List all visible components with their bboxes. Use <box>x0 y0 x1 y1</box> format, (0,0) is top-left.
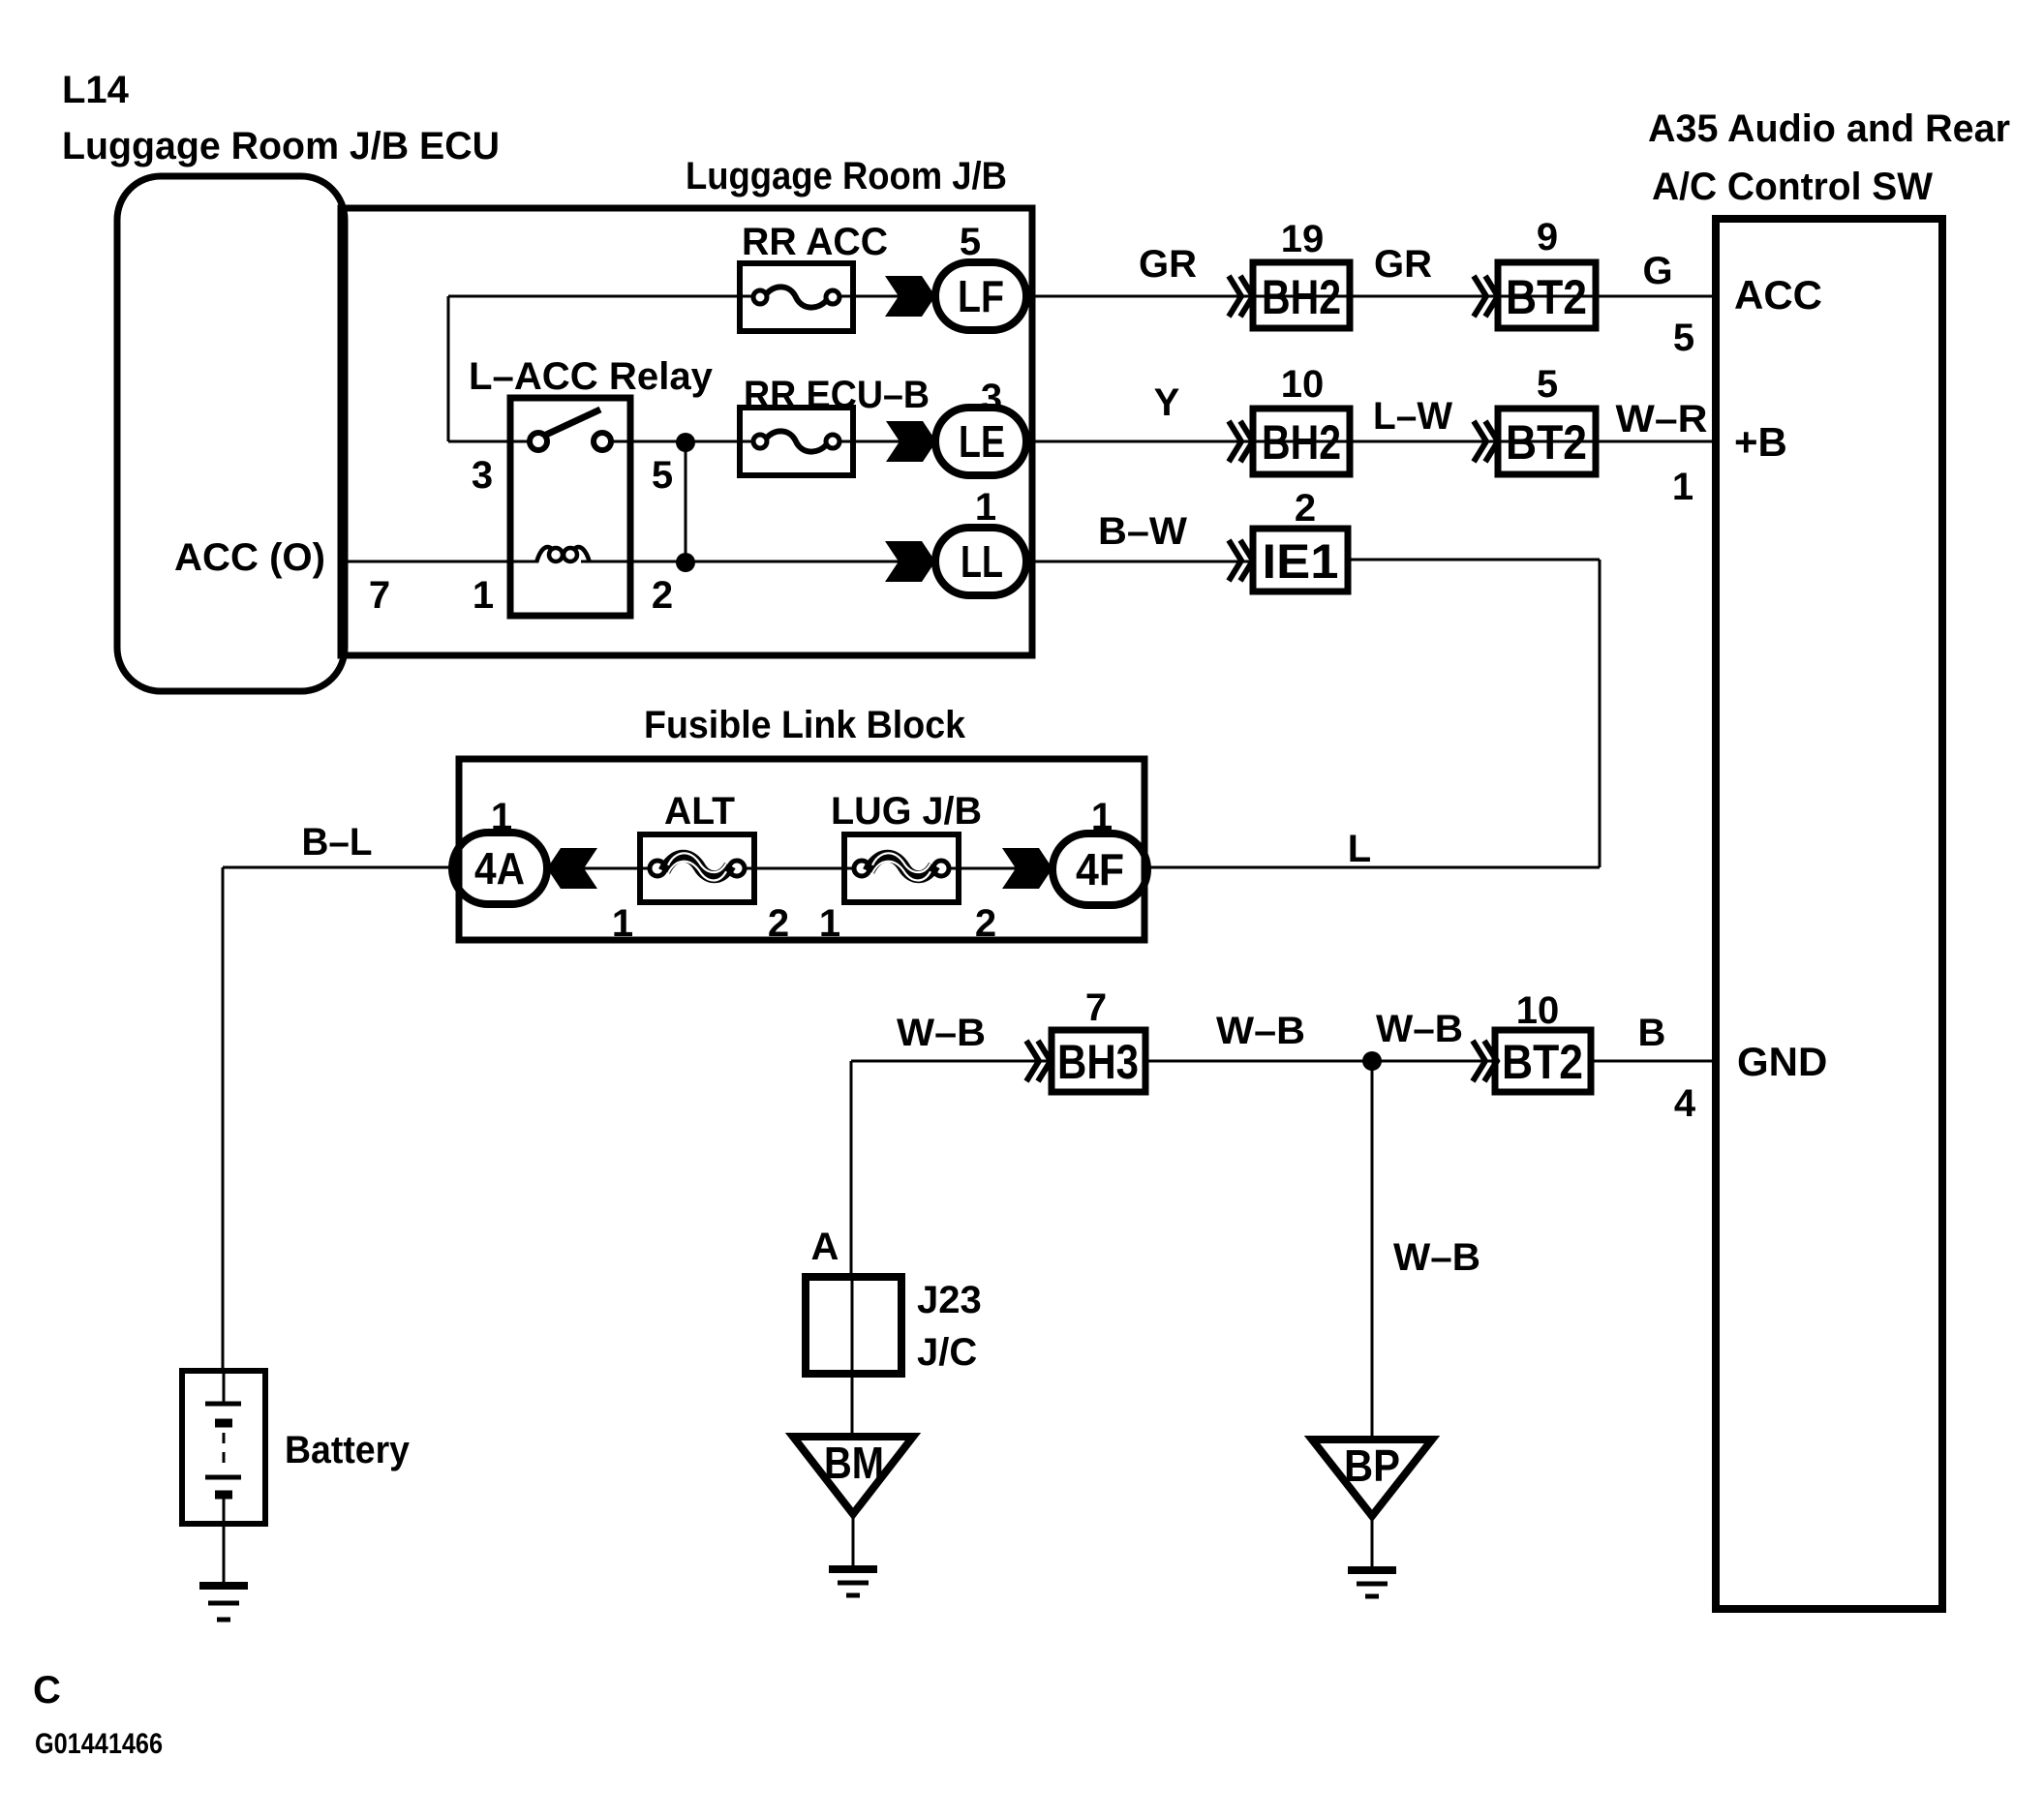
wire IE1 to corner <box>1348 559 1600 561</box>
svg-text:B: B <box>1638 1012 1666 1054</box>
svg-text:Luggage Room J/B ECU: Luggage Room J/B ECU <box>62 125 500 167</box>
svg-text:A: A <box>811 1226 839 1268</box>
wire corner riser down to L wire <box>1599 560 1602 867</box>
svg-text:Battery: Battery <box>285 1429 411 1471</box>
svg-text:L: L <box>1348 828 1371 870</box>
ground BP <box>1348 1566 1396 1574</box>
svg-text:BT2: BT2 <box>1506 415 1587 470</box>
svg-text:+B: +B <box>1734 419 1787 465</box>
relay contact left (pin 3) <box>530 433 547 450</box>
svg-text:LE: LE <box>959 416 1005 467</box>
svg-text:BH2: BH2 <box>1262 415 1341 470</box>
svg-text:5: 5 <box>1673 317 1694 359</box>
fuse RR ACC <box>740 263 853 331</box>
svg-text:7: 7 <box>369 574 390 617</box>
svg-text:7: 7 <box>1085 986 1107 1029</box>
wire riser row1 to relay pin 3 <box>447 296 450 441</box>
svg-text:19: 19 <box>1281 218 1325 260</box>
svg-text:2: 2 <box>652 574 673 617</box>
svg-text:9: 9 <box>1537 216 1558 258</box>
connector BH3 <box>1052 1030 1145 1092</box>
fuse RR ECU-B <box>740 408 853 475</box>
connector BT2 row2 <box>1498 409 1596 474</box>
wire BM to ground <box>852 1514 855 1569</box>
cavity LL <box>935 528 1026 595</box>
relay L-ACC Relay box <box>510 398 630 616</box>
wire W-B corner to BH3 <box>851 1060 1052 1063</box>
connector arrows into BT2 row1 <box>1474 276 1486 317</box>
svg-text:BT2: BT2 <box>1506 270 1587 324</box>
cavity 4F <box>1053 834 1147 905</box>
svg-text:GND: GND <box>1737 1039 1827 1084</box>
svg-text:W–R: W–R <box>1616 398 1708 440</box>
relay coil <box>536 547 552 562</box>
wire B-L from corner to 4A <box>223 866 454 869</box>
svg-text:Y: Y <box>1154 381 1180 424</box>
svg-text:LL: LL <box>961 536 1003 587</box>
connector BH2 row1 <box>1253 262 1350 328</box>
cavity 4A <box>452 833 547 904</box>
battery <box>182 1371 265 1524</box>
svg-text:1: 1 <box>612 902 633 945</box>
svg-text:B–W: B–W <box>1098 510 1187 553</box>
wire row1 from riser to RR ACC fuse <box>448 295 754 298</box>
wire BT2 to A35 GND <box>1591 1060 1716 1063</box>
svg-text:4F: 4F <box>1076 844 1124 894</box>
svg-text:IE1: IE1 <box>1263 534 1339 589</box>
wire relay pin5 to junction row2 <box>611 440 754 443</box>
arrow out of 4A <box>547 848 597 889</box>
wire 4A to ALT fuse <box>547 867 651 870</box>
svg-text:2: 2 <box>1295 487 1316 530</box>
svg-text:LUG J/B: LUG J/B <box>831 790 982 833</box>
fusible link block box <box>459 759 1144 940</box>
svg-text:4: 4 <box>1674 1082 1696 1125</box>
svg-text:L14: L14 <box>62 69 130 111</box>
wire L from 4F to riser <box>1147 866 1600 869</box>
svg-text:B–L: B–L <box>302 821 373 864</box>
svg-text:1: 1 <box>1672 466 1693 508</box>
svg-text:ACC (O): ACC (O) <box>174 536 325 579</box>
svg-text:G01441466: G01441466 <box>35 1728 163 1760</box>
connector L14 Luggage Room J/B ECU body <box>117 176 345 691</box>
svg-text:A/C Control SW: A/C Control SW <box>1652 166 1933 208</box>
wire riser corner down to J23 <box>850 1061 853 1277</box>
svg-text:W–B: W–B <box>1216 1010 1305 1052</box>
svg-text:GR: GR <box>1139 243 1197 286</box>
arrow into LE <box>886 421 936 462</box>
fusible link ALT <box>640 834 754 902</box>
wire LE to A35 +B <box>1026 440 1716 443</box>
svg-text:5: 5 <box>1537 363 1558 406</box>
fusible link LUG J/B <box>844 834 959 902</box>
wire B-L riser down to battery <box>222 867 225 1371</box>
wire BH3 to junction <box>1145 1060 1495 1063</box>
svg-text:ALT: ALT <box>664 790 735 833</box>
svg-text:LF: LF <box>958 271 1004 321</box>
svg-text:3: 3 <box>981 377 1002 419</box>
wire LUG J/B fuse to 4F <box>947 867 1053 870</box>
connector arrows into BT2 row4 <box>1473 1041 1485 1081</box>
arrow into 4F <box>1002 848 1053 889</box>
junction connector J23 J/C <box>806 1277 901 1374</box>
connector A35 Audio and Rear A/C Control SW body <box>1716 219 1942 1609</box>
connector arrows into BH2 row2 <box>1229 421 1241 462</box>
cavity LE <box>935 408 1026 475</box>
svg-text:W–B: W–B <box>1393 1236 1480 1279</box>
wire junction to LL <box>686 561 935 563</box>
wire battery to ground <box>223 1524 226 1586</box>
svg-text:W–B: W–B <box>1376 1008 1463 1050</box>
svg-text:4A: 4A <box>474 843 525 894</box>
svg-text:BH3: BH3 <box>1057 1035 1139 1089</box>
svg-text:10: 10 <box>1281 363 1325 406</box>
svg-text:BM: BM <box>824 1438 884 1488</box>
ground connector BM <box>793 1437 913 1514</box>
ground connector BP <box>1312 1440 1432 1516</box>
svg-text:5: 5 <box>960 221 981 263</box>
wire LF to A35 ACC <box>1026 295 1716 298</box>
connector BH2 row2 <box>1253 409 1350 474</box>
svg-text:ACC: ACC <box>1734 272 1822 318</box>
wire ACC(O) pin7 to relay coil <box>345 561 538 563</box>
svg-text:2: 2 <box>768 902 789 945</box>
ground BM <box>829 1565 877 1573</box>
svg-text:W–B: W–B <box>897 1012 986 1054</box>
wire relay pin3 stub <box>448 440 532 443</box>
wire LL to IE1 <box>1026 561 1253 563</box>
svg-text:2: 2 <box>975 902 996 945</box>
connector arrows into IE1 <box>1229 540 1241 581</box>
svg-text:Luggage Room J/B: Luggage Room J/B <box>686 155 1007 197</box>
svg-text:RR ECU–B: RR ECU–B <box>744 374 930 416</box>
svg-text:3: 3 <box>472 454 493 497</box>
svg-text:J/C: J/C <box>917 1331 977 1374</box>
svg-text:RR ACC: RR ACC <box>742 221 888 263</box>
wire junction down to BP <box>1371 1061 1374 1440</box>
svg-text:1: 1 <box>975 486 996 529</box>
junction dot row2 <box>676 433 695 452</box>
connector arrows into BH3 <box>1026 1041 1039 1081</box>
svg-text:L–W: L–W <box>1373 395 1452 438</box>
svg-text:10: 10 <box>1516 989 1560 1032</box>
wire BP to ground <box>1371 1516 1374 1570</box>
svg-text:BP: BP <box>1344 1440 1400 1491</box>
relay contact right (pin 5) <box>594 433 611 450</box>
connector arrows into BT2 row2 <box>1474 421 1486 462</box>
arrow into LF <box>885 276 935 317</box>
svg-text:1: 1 <box>819 902 840 945</box>
svg-text:J23: J23 <box>917 1279 982 1321</box>
svg-text:5: 5 <box>652 454 673 497</box>
connector arrows into BH2 row1 <box>1229 276 1241 317</box>
svg-text:A35 Audio and Rear: A35 Audio and Rear <box>1648 107 2010 150</box>
svg-text:1: 1 <box>473 574 494 617</box>
junction dot row3 <box>676 553 695 572</box>
connector IE1 <box>1253 529 1348 591</box>
connector BT2 row4 <box>1495 1030 1591 1092</box>
wire junction riser between row2 and row3 <box>685 442 687 562</box>
svg-text:Fusible Link Block: Fusible Link Block <box>644 704 966 746</box>
junction dot W-B <box>1362 1051 1382 1071</box>
wire coil to junction <box>581 561 686 563</box>
wire J23 to BM <box>851 1374 854 1437</box>
wire RR ECU-B fuse to LE <box>839 440 936 443</box>
cavity LF <box>935 262 1026 330</box>
connector BT2 row1 <box>1498 262 1596 328</box>
svg-text:BT2: BT2 <box>1502 1035 1583 1089</box>
svg-text:G: G <box>1642 250 1672 292</box>
arrow into LL <box>885 541 935 582</box>
junction block Luggage Room J/B <box>341 208 1032 655</box>
wire RR ACC fuse to LF <box>839 295 935 298</box>
wire ALT to LUG J/B fuse <box>743 867 855 870</box>
svg-text:BH2: BH2 <box>1262 270 1341 324</box>
svg-text:L–ACC Relay: L–ACC Relay <box>469 355 714 398</box>
relay switch blade <box>546 409 600 435</box>
ground battery <box>199 1582 248 1590</box>
svg-text:GR: GR <box>1374 243 1432 286</box>
svg-text:C: C <box>33 1669 61 1712</box>
